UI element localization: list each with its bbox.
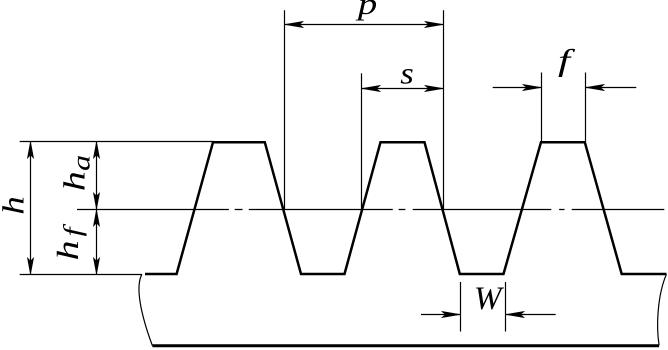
dimension line W left tail [421, 314, 461, 316]
addendum (crest) reference line [20, 141, 214, 143]
arrowhead ha top (pointing up) [93, 142, 99, 159]
dimension line f left tail [493, 87, 542, 89]
dimension line f right tail [586, 87, 637, 89]
dimension line h [30, 142, 32, 275]
arrowhead h top (pointing up) [27, 142, 33, 159]
extension line p/s right [443, 10, 445, 209]
svg-text:W: W [474, 281, 504, 317]
extension line f left [541, 73, 543, 143]
dimension line ha/hf [96, 142, 98, 275]
extension line W right [505, 282, 507, 332]
arrowhead hf bottom (pointing down) [93, 258, 99, 275]
right break curve [658, 274, 667, 345]
arrowhead hf top (pointing up at pitch line) [93, 210, 99, 227]
arrowhead W left (pointing right) [442, 311, 461, 317]
arrowhead s left [362, 85, 381, 91]
extension line p left [284, 10, 286, 209]
svg-text:h: h [0, 196, 31, 215]
body bottom line (thick) [152, 344, 659, 347]
arrowhead f right (pointing left) [586, 84, 605, 90]
arrowhead W right (pointing left) [506, 311, 525, 317]
dimension line s [362, 88, 444, 90]
arrowhead h bottom (pointing down) [27, 258, 33, 275]
dimension line p [285, 24, 444, 26]
svg-text:s: s [400, 57, 414, 91]
extension line W left [460, 282, 462, 332]
dedendum (root) reference line [20, 274, 142, 276]
left break curve [139, 274, 152, 345]
arrowhead f left (pointing right) [523, 84, 542, 90]
arrowhead p right [425, 21, 444, 27]
dimension line W right tail [506, 314, 556, 316]
tooth profile outline (rack teeth, thick line) [145, 142, 667, 274]
arrowhead p left [285, 21, 304, 27]
pitch line (chain line) [77, 209, 664, 211]
extension line f right [585, 73, 587, 143]
extension line s left [361, 73, 363, 209]
arrowhead ha bottom (pointing down at pitch line) [93, 193, 99, 210]
svg-text:p: p [354, 0, 377, 21]
arrowhead s right [425, 85, 444, 91]
